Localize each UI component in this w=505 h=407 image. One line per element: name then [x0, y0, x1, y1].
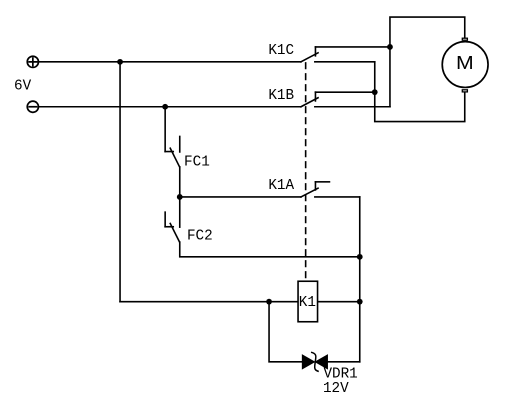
relay contact K1B	[301, 92, 390, 107]
svg-text:K1B: K1B	[268, 88, 294, 104]
svg-text:FC2: FC2	[187, 229, 213, 245]
node FC2-line junction	[357, 254, 363, 260]
node K1C-top/motor junction	[387, 44, 393, 50]
wire motor top branch	[390, 17, 465, 107]
svg-text:VDR1: VDR1	[323, 366, 357, 382]
node plus-rail/coil-branch junction	[117, 59, 123, 65]
node minus-rail/FC1 junction	[162, 104, 168, 110]
wire junction to FC2	[179, 197, 181, 227]
node coil right junction	[357, 299, 363, 305]
wire coil right	[318, 301, 359, 303]
limit switch FC1	[165, 136, 180, 166]
node FC1-out junction	[177, 194, 183, 200]
mechanical link dashed line	[305, 63, 307, 278]
wire FC1 drop	[164, 107, 166, 152]
wire VDR right	[327, 361, 359, 363]
wire K1A out vertical	[359, 197, 361, 362]
relay contact K1A	[301, 182, 360, 197]
wire minus rail	[39, 106, 301, 108]
svg-text:K1A: K1A	[268, 178, 294, 194]
svg-text:12V: 12V	[323, 381, 349, 397]
svg-text:6V: 6V	[14, 79, 32, 95]
wire motor bottom branch	[375, 62, 465, 122]
wire FC1 to junction	[179, 167, 181, 197]
svg-text:FC1: FC1	[184, 155, 210, 171]
svg-text:M: M	[456, 53, 474, 73]
wire K1A feed	[180, 196, 301, 198]
varistor VDR1	[302, 352, 327, 371]
relay coil K1	[298, 281, 318, 322]
motor M1	[442, 38, 488, 92]
svg-text:K1: K1	[299, 295, 316, 311]
relay contact K1C	[301, 47, 390, 62]
battery + terminal	[27, 56, 38, 67]
wire coil feed horizontal	[120, 301, 297, 303]
wire VDR left branch	[269, 302, 302, 362]
wire left vertical to coil	[119, 62, 121, 302]
wire plus rail	[39, 61, 301, 63]
svg-text:K1C: K1C	[268, 43, 294, 59]
node K1B-top junction	[372, 89, 378, 95]
node coil left junction	[266, 299, 272, 305]
battery - terminal	[27, 101, 38, 112]
wire FC2 out	[180, 242, 360, 257]
limit switch FC2	[165, 212, 179, 242]
